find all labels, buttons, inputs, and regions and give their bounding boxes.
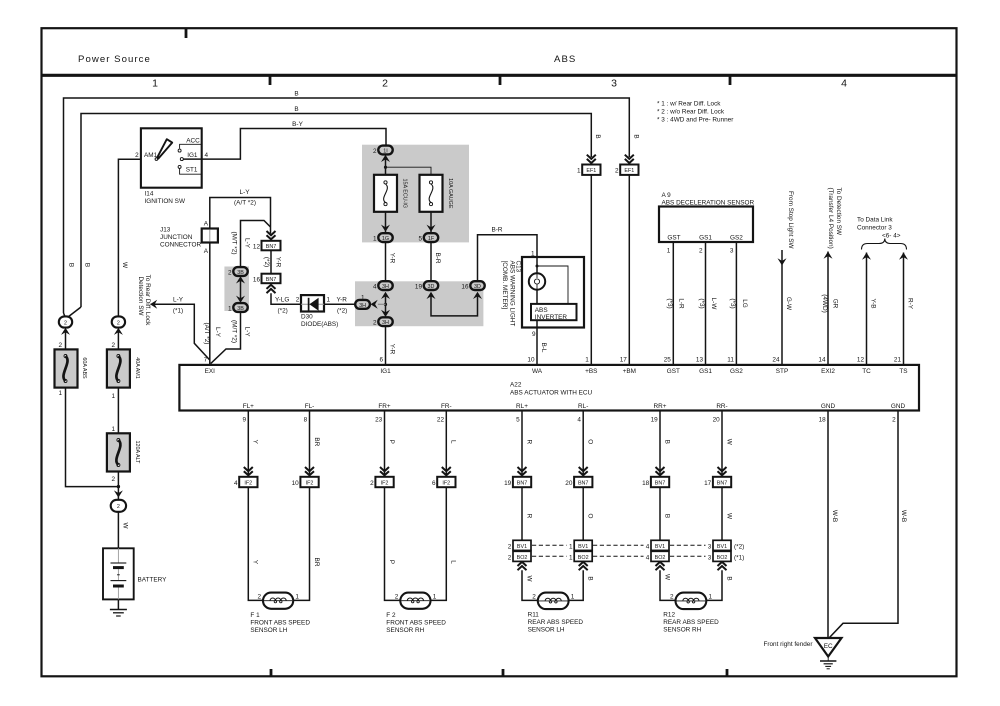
wire 1I to fuse 15A (385, 157, 387, 175)
connector 2 (AM1 feed) (112, 316, 125, 327)
connector 1 3H (355, 300, 370, 309)
svg-text:RR+: RR+ (654, 403, 667, 410)
svg-text:8: 8 (304, 416, 308, 423)
svg-text:W: W (121, 262, 128, 269)
ground symbol below EC (820, 657, 836, 669)
connector 19 BN7 (513, 477, 531, 487)
svg-text:GND: GND (891, 403, 906, 410)
wire 1G down to 4 3H (385, 242, 387, 282)
connector 1 3B (233, 303, 247, 312)
ECU pin numbers top row (204, 357, 902, 364)
svg-text:DIODE(ABS): DIODE(ABS) (301, 321, 338, 328)
wire connector to battery (117, 512, 119, 549)
svg-text:BN7: BN7 (517, 481, 528, 487)
svg-text:2: 2 (111, 342, 115, 349)
connector 1 BO2 (574, 551, 592, 561)
svg-text:From Stop Light SW: From Stop Light SW (787, 191, 794, 250)
wire GS1 to ECU (705, 242, 707, 365)
svg-text:2: 2 (615, 168, 619, 175)
svg-text:13: 13 (696, 357, 704, 364)
svg-text:BN7: BN7 (578, 481, 589, 487)
svg-text:2: 2 (699, 248, 703, 255)
column tick 2-3 (499, 76, 502, 85)
svg-text:ABS WARNING LIGHT: ABS WARNING LIGHT (509, 261, 516, 327)
svg-text:B: B (84, 263, 91, 267)
svg-text:5: 5 (418, 236, 422, 243)
arrow up into connector 2 AM1 (114, 328, 123, 335)
svg-text:* 3 : 4WD and Pre- Runner: * 3 : 4WD and Pre- Runner (657, 117, 734, 124)
svg-text:ABS: ABS (554, 54, 576, 65)
svg-text:B: B (632, 134, 639, 138)
svg-text:J13: J13 (160, 227, 171, 234)
wire 2 IF2 to F2 (385, 487, 401, 600)
chevron down into 12 BN7 (267, 231, 276, 239)
wire bulb to inverter (536, 290, 538, 304)
ground below battery (110, 599, 127, 616)
svg-text:2: 2 (58, 342, 62, 349)
wire BO2 to R12 (660, 570, 676, 600)
chevron into 19 BN7 (518, 467, 527, 475)
svg-text:2: 2 (373, 320, 377, 327)
wire connector2 to fuse 60A (65, 330, 67, 349)
svg-text:18: 18 (642, 480, 650, 487)
svg-text:EF1: EF1 (586, 168, 596, 174)
ECU pin numbers bottom row (242, 416, 896, 423)
svg-text:GST: GST (667, 235, 680, 242)
svg-text:W: W (725, 439, 732, 446)
svg-text:P: P (388, 560, 395, 564)
svg-text:GND: GND (821, 403, 836, 410)
svg-text:(*3): (*3) (698, 298, 705, 308)
connector 2 3H (378, 317, 392, 326)
svg-text:FRONT ABS SPEED: FRONT ABS SPEED (250, 619, 310, 626)
svg-text:D30: D30 (301, 314, 313, 321)
connector 4 IF2 (239, 477, 257, 487)
svg-text:5: 5 (516, 416, 520, 423)
wire arrow to dot (378, 303, 386, 305)
column tick 1-2 (269, 76, 272, 85)
svg-text:6: 6 (432, 480, 436, 487)
wire 19 BN7 to BV1 (521, 487, 523, 540)
svg-text:BN7: BN7 (266, 277, 277, 283)
ACC contact (178, 138, 202, 152)
svg-text:B: B (294, 106, 298, 113)
chevron down into 2 EF1 (625, 155, 634, 163)
svg-text:IG1: IG1 (187, 152, 198, 159)
svg-text:TC: TC (862, 368, 871, 375)
bottom tick 1-2 (270, 669, 273, 676)
svg-text:STP: STP (776, 368, 788, 375)
svg-text:2: 2 (508, 554, 512, 561)
wire B rail1 drop into connector (64, 313, 66, 317)
svg-text:GS2: GS2 (730, 368, 743, 375)
wire RR+ down (659, 411, 661, 476)
ignition switch lever (155, 139, 172, 160)
svg-text:17: 17 (704, 480, 712, 487)
svg-text:A: A (204, 248, 209, 255)
svg-text:Y-R: Y-R (337, 296, 348, 303)
wire EXI2 with up arrow (824, 252, 833, 365)
svg-text:O: O (587, 514, 594, 519)
ECU pin names top row (205, 368, 908, 375)
svg-text:BATTERY: BATTERY (138, 577, 168, 584)
wire 16 3D up to C13 (478, 235, 538, 282)
svg-text:(*2): (*2) (734, 543, 744, 550)
svg-text:4: 4 (577, 416, 581, 423)
svg-text:Y-R: Y-R (388, 253, 395, 264)
wire TC with up arrow (862, 253, 871, 365)
svg-text:40A AM1: 40A AM1 (134, 357, 140, 379)
svg-text:A 9: A 9 (662, 192, 672, 199)
svg-text:SENSOR LH: SENSOR LH (528, 626, 565, 633)
svg-text:1: 1 (111, 393, 115, 400)
svg-text:IF2: IF2 (244, 481, 252, 487)
svg-text:A: A (204, 221, 209, 228)
svg-text:Y: Y (252, 440, 259, 445)
svg-text:(A/T *2): (A/T *2) (203, 323, 210, 345)
svg-text:To Detection SW: To Detection SW (835, 188, 842, 237)
svg-text:2: 2 (257, 593, 261, 600)
ground EC triangle (815, 638, 842, 657)
chevron into 6 IF2 (442, 467, 451, 475)
svg-text:ABS: ABS (535, 307, 548, 314)
sensor R12 coil (676, 593, 707, 610)
svg-text:To Data Link: To Data Link (857, 217, 893, 224)
wire BO2 to R12 right (706, 570, 722, 600)
svg-text:BN7: BN7 (717, 481, 728, 487)
svg-text:16: 16 (253, 276, 261, 283)
svg-text:WA: WA (532, 368, 543, 375)
wire EF1 to +BM (628, 175, 630, 365)
svg-text:INVERTER: INVERTER (535, 314, 568, 321)
connector 4 BO2 (651, 551, 669, 561)
svg-text:L-Y: L-Y (240, 189, 251, 196)
svg-text:1: 1 (569, 543, 573, 550)
wire GND right (830, 411, 899, 638)
svg-text:W: W (122, 522, 129, 529)
wire BO2 to R11 (522, 570, 538, 600)
svg-text:14: 14 (818, 357, 826, 364)
sensor F2 coil (400, 593, 430, 609)
wire L-Y horizontal A/T (210, 198, 271, 234)
svg-text:6: 6 (379, 357, 383, 364)
wire 60A ABS to junction (66, 388, 119, 487)
svg-text:9: 9 (532, 331, 536, 338)
wire BN7 16 to diode (271, 293, 301, 304)
svg-text:19: 19 (415, 284, 423, 291)
svg-text:3: 3 (708, 554, 712, 561)
svg-text:ST1: ST1 (186, 166, 198, 173)
svg-text:R: R (525, 439, 532, 444)
arrow up into connector 2 (61, 328, 70, 335)
branch wire to 10A GAUGE (386, 167, 432, 175)
header tick on top border (185, 28, 188, 38)
svg-text:2: 2 (670, 593, 674, 600)
svg-text:A22: A22 (510, 382, 522, 389)
svg-text:F 1: F 1 (250, 612, 260, 619)
svg-text:IGNITION SW: IGNITION SW (145, 198, 186, 205)
svg-text:* 2 : w/o Rear Diff. Lock: * 2 : w/o Rear Diff. Lock (657, 109, 725, 116)
svg-text:1: 1 (58, 390, 62, 397)
column tick 3-4 (729, 76, 732, 85)
svg-text:25: 25 (664, 357, 672, 364)
svg-text:1: 1 (577, 168, 581, 175)
svg-text:BN7: BN7 (266, 244, 277, 250)
svg-text:W-B: W-B (900, 510, 907, 522)
svg-text:GR: GR (831, 299, 838, 309)
svg-text:L-W: L-W (710, 298, 717, 311)
svg-text:RL-: RL- (578, 403, 588, 410)
sensor F1 coil (263, 593, 293, 609)
svg-text:10: 10 (292, 480, 300, 487)
svg-text:L-R: L-R (678, 298, 685, 309)
svg-text:BR: BR (313, 437, 320, 446)
arrow up into 2 3B (236, 276, 245, 283)
svg-text:EXI: EXI (205, 368, 216, 375)
svg-text:2: 2 (892, 416, 896, 423)
svg-text:7: 7 (204, 357, 208, 364)
connector 3 BV1 (713, 540, 731, 550)
ECU A22 box (179, 365, 919, 411)
svg-text:R: R (525, 514, 532, 519)
svg-text:Power Source: Power Source (78, 54, 151, 65)
connector 1 BV1 (574, 540, 592, 550)
svg-text:BN7: BN7 (655, 481, 666, 487)
svg-text:SENSOR LH: SENSOR LH (250, 627, 287, 634)
svg-text:10A GAUGE: 10A GAUGE (447, 178, 453, 209)
wire inverter to box bottom (536, 320, 538, 327)
svg-text:22: 22 (437, 416, 445, 423)
svg-text:<6- 4>: <6- 4> (882, 233, 901, 240)
svg-text:60A ABS: 60A ABS (81, 357, 87, 379)
chevron up under 4 BO2 (656, 562, 665, 570)
ignition switch I14 box (141, 128, 202, 187)
svg-text:1: 1 (327, 297, 331, 304)
arrow down into 1 3B (236, 296, 245, 303)
chevron into 2 IF2 (380, 467, 389, 475)
svg-text:3D: 3D (428, 284, 435, 290)
svg-text:B-R: B-R (491, 227, 502, 234)
svg-text:1: 1 (433, 593, 437, 600)
gray panel 3B (224, 267, 249, 312)
svg-text:2: 2 (395, 593, 399, 600)
svg-text:SENSOR RH: SENSOR RH (663, 626, 701, 633)
brace over TC TS (862, 239, 907, 250)
dashed link BO2 row seg3 (670, 555, 706, 557)
wire B rail2 diagonal into connector (68, 307, 81, 317)
svg-text:4: 4 (205, 152, 209, 159)
svg-text:FL-: FL- (305, 403, 315, 410)
svg-text:BO2: BO2 (655, 555, 666, 561)
svg-text:Y: Y (252, 560, 259, 565)
svg-text:Y-B: Y-B (869, 298, 876, 308)
svg-text:GST: GST (667, 368, 680, 375)
junction connector J13 (202, 229, 218, 243)
wire C13 to WA pin (536, 328, 538, 365)
svg-text:3: 3 (730, 248, 734, 255)
svg-text:BV1: BV1 (517, 544, 527, 550)
svg-text:(*3): (*3) (729, 298, 736, 308)
bottom tick 3-4 (726, 669, 729, 676)
svg-text:BV1: BV1 (578, 544, 588, 550)
wire 4 3H to 2 3H (385, 294, 387, 315)
connector 6 IF2 (437, 477, 455, 487)
wire EF1 to +BS (590, 175, 592, 365)
fuse 10A GAUGE (420, 175, 454, 212)
svg-text:(*1): (*1) (173, 308, 183, 315)
arrow down into 1F (427, 225, 436, 232)
svg-text:L: L (450, 560, 457, 564)
svg-text:REAR ABS SPEED: REAR ABS SPEED (663, 619, 719, 626)
wire RL+ down (521, 411, 523, 476)
svg-text:3D: 3D (474, 284, 481, 290)
header divider thick line (41, 74, 957, 77)
svg-text:BV1: BV1 (655, 544, 665, 550)
chevron into 4 IF2 (244, 467, 253, 475)
svg-text:1: 1 (571, 593, 575, 600)
svg-text:+BM: +BM (623, 368, 636, 375)
wire 2 3H down to IG1 pin (385, 326, 387, 365)
svg-text:2: 2 (373, 148, 377, 155)
chevron down into 1 EF1 (587, 155, 596, 163)
connector 16 BN7 (262, 274, 281, 284)
svg-text:(M/T *2): (M/T *2) (230, 232, 237, 255)
wire 15A to 1G (385, 212, 387, 233)
ABS warning bulb (529, 273, 545, 289)
svg-text:IF2: IF2 (442, 481, 450, 487)
svg-text:B: B (68, 263, 75, 267)
connector 19 3D (424, 281, 438, 290)
svg-text:1: 1 (295, 593, 299, 600)
fuse 120A ALT (107, 433, 140, 471)
wire B rail 1 top (64, 98, 630, 313)
svg-text:O: O (587, 439, 594, 444)
wire 1 3B down to EXI (211, 312, 241, 364)
svg-text:3H: 3H (382, 320, 389, 326)
svg-text:(*1): (*1) (734, 554, 744, 561)
ABS INVERTER box (531, 304, 577, 320)
svg-text:BR: BR (313, 558, 320, 567)
wire C13 entry to bulb (536, 257, 538, 273)
wire 120A down to battery junction (117, 472, 119, 500)
chevron up under 16 BN7 (267, 285, 276, 293)
svg-text:12: 12 (857, 357, 865, 364)
wire 20 BN7 to BV1 (582, 487, 584, 540)
connector 16 3D (470, 281, 484, 290)
svg-text:3B: 3B (237, 306, 244, 312)
connector 18 BN7 (651, 477, 669, 487)
connector 1 EF1 (582, 165, 600, 175)
svg-text:B-L: B-L (540, 343, 547, 353)
svg-text:* 1 : w/ Rear Diff. Lock: * 1 : w/ Rear Diff. Lock (657, 101, 721, 108)
svg-text:1: 1 (111, 426, 115, 433)
wire FL+ down (247, 411, 249, 476)
battery (103, 548, 134, 599)
svg-text:B-Y: B-Y (292, 121, 303, 128)
svg-text:B: B (725, 576, 732, 580)
svg-text:REAR ABS SPEED: REAR ABS SPEED (528, 619, 584, 626)
connector 2 BV1 (513, 540, 531, 550)
svg-text:B: B (663, 514, 670, 518)
svg-text:Detection SW: Detection SW (137, 276, 144, 316)
svg-text:1: 1 (152, 78, 158, 90)
wire FR- down (445, 411, 447, 476)
ECU pin names bottom row (243, 403, 906, 410)
svg-text:4: 4 (646, 554, 650, 561)
svg-text:17: 17 (620, 357, 628, 364)
svg-text:W: W (725, 513, 732, 520)
dashed link BV1 row seg1 (532, 544, 567, 546)
dashed link BV1 row seg3 (670, 544, 706, 546)
svg-text:4: 4 (646, 543, 650, 550)
connector 2 (battery) (111, 500, 126, 512)
svg-text:120A ALT: 120A ALT (134, 441, 140, 465)
svg-text:G-W: G-W (785, 297, 792, 311)
chevron into 17 BN7 (718, 467, 727, 475)
wire 1F down to 19 3D (430, 242, 432, 282)
junction dot battery feed (117, 485, 120, 488)
connector 12 BN7 (262, 241, 281, 251)
svg-text:GS2: GS2 (730, 235, 743, 242)
wire M/T branch up to BN7 (241, 221, 271, 268)
svg-text:R12: R12 (663, 611, 675, 618)
arrow down into 2 3H (381, 310, 390, 317)
svg-text:3: 3 (708, 543, 712, 550)
arrow down into connector (114, 490, 123, 497)
svg-text:EF1: EF1 (624, 168, 634, 174)
svg-text:2: 2 (111, 476, 115, 483)
svg-text:21: 21 (894, 357, 902, 364)
svg-text:2: 2 (370, 480, 374, 487)
svg-text:BV1: BV1 (717, 544, 727, 550)
arrow up into 16 3D (473, 292, 482, 299)
dashed link BV1 row seg2 (593, 544, 644, 546)
svg-text:W-B: W-B (831, 510, 838, 522)
svg-text:16: 16 (461, 284, 469, 291)
svg-text:I14: I14 (145, 191, 154, 198)
arrow up into 19 3D (427, 292, 436, 299)
wire BN7 12 to 16 (270, 250, 272, 273)
svg-text:11: 11 (727, 357, 734, 364)
wire RL- down (582, 411, 584, 476)
svg-text:Y-R: Y-R (275, 257, 282, 268)
sensor R11 coil (538, 593, 569, 610)
A9 deceleration sensor box (659, 207, 753, 243)
svg-text:1: 1 (667, 248, 671, 255)
svg-text:BO2: BO2 (578, 555, 589, 561)
svg-text:1: 1 (228, 305, 232, 312)
svg-text:20: 20 (713, 416, 721, 423)
svg-text:4: 4 (841, 78, 847, 90)
arrow down into 1G (381, 225, 390, 232)
svg-text:+BS: +BS (585, 368, 597, 375)
svg-text:23: 23 (375, 416, 383, 423)
svg-text:W: W (663, 574, 670, 581)
connector 2 EF1 (620, 165, 638, 175)
chevron into 18 BN7 (656, 467, 665, 475)
svg-text:4: 4 (373, 284, 377, 291)
svg-text:15A ECU-IG: 15A ECU-IG (402, 178, 408, 208)
wire GST to ECU (672, 242, 674, 365)
connector 1 1G (378, 233, 392, 242)
svg-text:24: 24 (772, 357, 780, 364)
wire 40A to 120A (117, 388, 119, 434)
svg-text:12: 12 (253, 243, 261, 250)
svg-text:19: 19 (651, 416, 659, 423)
wire TS with up arrow (899, 253, 908, 365)
chevron into 20 BN7 (579, 467, 588, 475)
wire between 3B pair (240, 279, 242, 302)
